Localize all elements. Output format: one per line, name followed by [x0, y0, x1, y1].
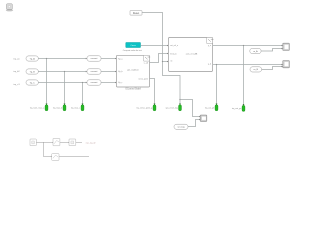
wire convert 1 to stabilizer — [101, 57, 116, 60]
svg-text:sys_reset_log: sys_reset_log — [165, 106, 177, 109]
junction out2 riser — [216, 64, 217, 65]
svg-text:Cmax: Cmax — [130, 45, 135, 47]
svg-text:trq_b2: trq_b2 — [13, 70, 20, 73]
display scope 2 — [283, 61, 290, 68]
utility block A — [30, 139, 36, 146]
svg-text:trq_servo_pwm_g: trq_servo_pwm_g — [136, 106, 152, 109]
goto tag green 7 — [243, 104, 245, 106]
goto tag green 1 — [46, 104, 48, 106]
junction row 1 — [46, 58, 47, 59]
svg-text:Kp_c: Kp_c — [118, 82, 122, 84]
from tag meas A — [250, 48, 261, 53]
utility block C — [69, 139, 76, 146]
svg-text:trq_a1: trq_a1 — [13, 58, 20, 61]
from tag [Tq_B] — [26, 69, 38, 74]
svg-text:Kp_b: Kp_b — [118, 71, 122, 73]
svg-text:trq_max_c: trq_max_c — [71, 106, 80, 109]
wire convert 3 to stabilizer — [101, 81, 116, 84]
wire riser to torque tag 1 — [45, 59, 48, 105]
utility block B — [53, 138, 60, 145]
svg-text:u_ab: u_ab — [144, 63, 148, 65]
wire A to B — [36, 141, 52, 144]
goto tag green 2 — [64, 104, 66, 106]
from tag [Tq_A] — [26, 56, 38, 61]
svg-text:Tq_C: Tq_C — [29, 82, 35, 84]
wire D dangling output — [59, 155, 89, 158]
logger scope — [200, 115, 207, 121]
svg-text:trq_out_yb: trq_out_yb — [205, 106, 215, 109]
from tag servo log — [174, 124, 188, 129]
subsystem GControl Stabil — [117, 55, 150, 87]
wire row 1 — [38, 57, 86, 60]
wire A branch to D — [44, 143, 52, 157]
wire C output — [76, 141, 82, 144]
svg-text:m_B: m_B — [254, 69, 259, 71]
svg-text:trq_max_b: trq_max_b — [53, 106, 63, 109]
badge on controller — [206, 37, 212, 43]
junction reset branch — [162, 61, 163, 62]
display scope 1 — [283, 43, 290, 50]
junction row 3 — [82, 82, 83, 83]
junction out1 riser — [243, 45, 244, 46]
subsystem axis controller — [169, 37, 213, 71]
wire riser to torque tag 2 — [63, 72, 66, 105]
svg-text:trq_out_ya: trq_out_ya — [232, 107, 242, 110]
wire row 2 — [38, 70, 86, 73]
wire row 3 — [38, 81, 86, 84]
data type conversion block 3 — [87, 80, 101, 85]
highlighted block Computes value — [126, 43, 141, 48]
wire controller out1 to display 1 — [213, 44, 282, 47]
data type conversion block 2 — [87, 69, 101, 74]
goto tag green 3 — [82, 104, 84, 106]
wire meas B to display 2 — [262, 67, 282, 70]
wire meas A to display 1 — [261, 49, 282, 52]
wire telemetry branch to logger scope — [180, 100, 199, 117]
wire reset branch into controller port 3 — [163, 60, 168, 63]
wire stabilizer out2 to servo tag — [150, 79, 155, 105]
wire riser to torque tag 6 — [215, 65, 218, 105]
source block Reset — [130, 11, 142, 16]
svg-text:Reset: Reset — [133, 12, 140, 15]
goto tag green 5 — [179, 104, 181, 106]
wire riser to torque tag 3 — [81, 83, 84, 105]
svg-text:Tq_B: Tq_B — [30, 71, 36, 73]
badge on stabilizer — [143, 55, 149, 61]
wire stabilizer out1 to controller port 2 — [150, 54, 168, 63]
goto tag green 4 — [154, 104, 156, 106]
wire servo log to logger scope — [188, 120, 199, 127]
from tag meas B — [250, 67, 262, 72]
junction row 2 — [64, 71, 65, 72]
wire Reset to reset-port and pill riser — [142, 13, 180, 105]
wire controller out2 to display 2 — [213, 63, 282, 66]
svg-text:GControl Stabil: GControl Stabil — [125, 88, 141, 91]
svg-text:y_b: y_b — [208, 64, 211, 66]
svg-text:srv_log: srv_log — [178, 127, 186, 129]
svg-text:raw_sig_42: raw_sig_42 — [86, 141, 96, 144]
svg-text:Compute value for test: Compute value for test — [123, 49, 142, 52]
junction telemetry branch — [179, 99, 180, 100]
from tag [Tq_C] — [26, 80, 38, 85]
wire B to C — [60, 141, 69, 144]
wire convert 2 to stabilizer — [101, 70, 116, 73]
svg-text:trq_num_max_a: trq_num_max_a — [30, 106, 45, 109]
annotation icon (model info badge) — [6, 9, 13, 11]
wire Cmax to controller port 1 — [141, 44, 168, 47]
goto tag green 6 — [216, 104, 218, 106]
data type conversion block 1 — [87, 56, 101, 61]
wire riser to torque tag 7 — [242, 46, 245, 106]
utility block D — [52, 154, 59, 161]
junction A branch — [43, 142, 44, 143]
svg-text:trq_c3: trq_c3 — [13, 83, 20, 86]
